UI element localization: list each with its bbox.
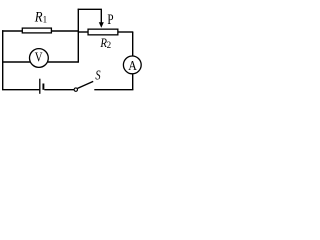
svg-text:1: 1: [43, 15, 48, 25]
svg-text:A: A: [128, 59, 137, 74]
svg-text:P: P: [107, 12, 113, 28]
svg-text:V: V: [35, 51, 43, 66]
svg-text:S: S: [95, 69, 100, 84]
svg-text:R: R: [34, 9, 43, 25]
svg-text:2: 2: [107, 40, 112, 50]
